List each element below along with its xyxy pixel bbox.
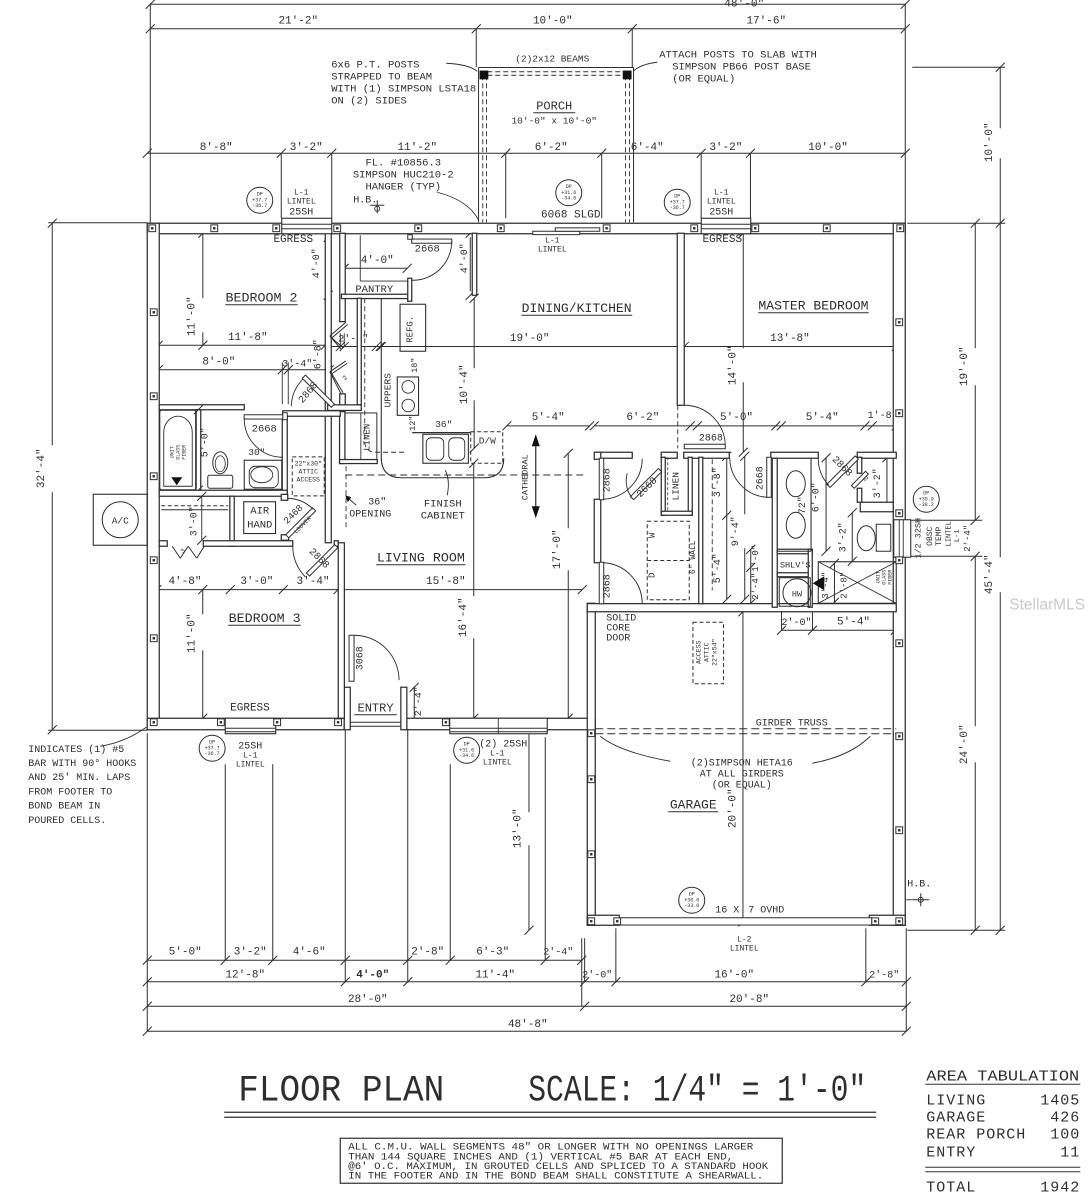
svg-text:6'-4": 6'-4" — [631, 142, 664, 154]
svg-text:GARAGE: GARAGE — [670, 797, 717, 812]
dim row 5'-4" 6'-2" 5'-0" 5'-4" 1'-8" hall/master — [507, 425, 590, 427]
wall water closet bottom — [860, 502, 893, 512]
dim row 8'-8" 3'-2" 11'-2" 6'-2" 6'-4" 3'-2" 10'-0" — [147, 152, 905, 154]
hot water heater — [779, 578, 810, 607]
svg-text:45'-4": 45'-4" — [984, 554, 996, 594]
air handler — [244, 502, 276, 534]
svg-text:15'-8": 15'-8" — [426, 576, 466, 588]
svg-text:HANGER (TYP): HANGER (TYP) — [365, 181, 441, 193]
svg-text:EGRESS: EGRESS — [702, 234, 742, 246]
svg-text:22"x54": 22"x54" — [711, 639, 718, 666]
svg-text:4'-0": 4'-0" — [459, 243, 471, 273]
svg-text:STRAPPED TO BEAM: STRAPPED TO BEAM — [331, 71, 432, 83]
wall hall top west segment — [595, 452, 632, 458]
wall garage bottom right of door — [869, 915, 905, 925]
wall hall south / garage top — [587, 604, 896, 612]
dim 6'-0" vanity — [825, 458, 827, 552]
svg-text:9'-4": 9'-4" — [730, 516, 742, 546]
dim 2'-0" 5'-4" bath bottom — [781, 610, 783, 630]
wall entry west — [344, 687, 350, 730]
wall air handler bottom — [203, 541, 293, 547]
wall bedroom3 east — [338, 543, 344, 719]
svg-text:6'-0": 6'-0" — [811, 482, 823, 512]
dim 45'-4" right overall — [999, 223, 1001, 557]
svg-text:EGRESS: EGRESS — [273, 234, 313, 246]
door 2868 bedroom 2 — [302, 375, 334, 407]
svg-text:LINTEL: LINTEL — [287, 197, 316, 206]
svg-text:10'-4": 10'-4" — [459, 364, 471, 404]
svg-text:11: 11 — [1060, 1144, 1080, 1161]
svg-text:2'-4": 2'-4" — [751, 573, 761, 600]
window 25SH master bedroom — [701, 218, 751, 234]
svg-text:-38.2: -38.2 — [919, 502, 934, 508]
svg-text:2668: 2668 — [415, 243, 440, 255]
dim 9'-4" laundry overall — [744, 456, 746, 514]
svg-text:D/W: D/W — [479, 435, 496, 446]
svg-text:11'-4": 11'-4" — [475, 969, 515, 981]
svg-text:32'-4": 32'-4" — [36, 448, 48, 488]
dim 11'-8" bedroom 2 — [158, 344, 325, 346]
wall garage bottom left of door — [587, 915, 619, 925]
svg-text:4'-6": 4'-6" — [293, 946, 326, 958]
kitchen counter edge — [381, 298, 504, 478]
svg-text:3'-4": 3'-4" — [282, 358, 312, 370]
dim 10'-4" kitchen vertical — [473, 298, 475, 368]
svg-text:3'-2": 3'-2" — [872, 468, 884, 498]
svg-text:D: D — [647, 573, 657, 578]
kitchen upper cabinets dashed — [364, 298, 366, 442]
louver door jambs — [281, 494, 288, 500]
dim 11'-0" bedroom 2 vertical — [202, 233, 204, 298]
wall bath top / bedroom2 bottom — [159, 405, 244, 410]
window 6068 SLGD sliding door — [530, 224, 601, 233]
svg-text:7 OVHD: 7 OVHD — [748, 905, 784, 916]
svg-text:GIRDER TRUSS: GIRDER TRUSS — [756, 718, 828, 729]
svg-text:21'-2": 21'-2" — [278, 15, 318, 27]
svg-text:24'-0": 24'-0" — [959, 724, 971, 764]
title underline double — [224, 1111, 876, 1113]
svg-text:PORCH: PORCH — [536, 99, 572, 113]
range cooktop — [397, 377, 418, 415]
svg-text:L-1: L-1 — [243, 751, 258, 760]
dim 17'-0" living room vertical 2 — [567, 453, 569, 528]
bedroom3 closet shelf — [161, 505, 228, 507]
porch beam dashed walls — [482, 75, 484, 222]
svg-text:LIVING ROOM: LIVING ROOM — [377, 550, 465, 565]
door 2868 master bedroom — [677, 405, 679, 448]
wall shelves top — [777, 549, 812, 554]
svg-text:2'-4": 2'-4" — [543, 946, 573, 958]
door 2868 bedroom 3 — [306, 545, 337, 576]
svg-text:FL. #10856.3: FL. #10856.3 — [365, 157, 441, 169]
svg-text:10'-0": 10'-0" — [533, 15, 573, 27]
svg-text:4'-0": 4'-0" — [311, 248, 323, 278]
bifold closet bedroom2 lower — [330, 361, 346, 372]
dp circle bottom left — [199, 735, 225, 761]
svg-text:-36.7: -36.7 — [252, 203, 267, 209]
door 2-6 water closet — [851, 471, 868, 488]
wall kitchen stub — [472, 233, 477, 295]
svg-text:19'-0": 19'-0" — [510, 333, 550, 345]
wall linen east — [688, 457, 692, 515]
svg-text:2'-0": 2'-0" — [781, 617, 811, 629]
wall bath east — [282, 416, 287, 496]
wall hall top master door east — [684, 452, 730, 458]
svg-text:AIR: AIR — [250, 505, 270, 517]
svg-text:3'-0": 3'-0" — [240, 576, 273, 588]
svg-text:16'-0": 16'-0" — [714, 969, 754, 981]
wall wic west lower — [857, 488, 862, 502]
dim 8'-0" 3'-4" bedroom 2 lower — [158, 369, 329, 371]
door 2868 hall south — [599, 562, 604, 604]
svg-text:-34.6: -34.6 — [459, 753, 474, 759]
svg-text:L-1: L-1 — [714, 188, 729, 197]
svg-text:11'-0": 11'-0" — [186, 296, 198, 336]
garage overhead door 16x7 — [620, 918, 872, 925]
svg-text:SCALE: 1/4" = 1'-0": SCALE: 1/4" = 1'-0" — [528, 1070, 866, 1112]
wall hall west upper — [594, 452, 601, 459]
wall tub east — [196, 410, 201, 497]
svg-text:LINTEL: LINTEL — [236, 760, 265, 769]
window 25SH bedroom 3 — [225, 718, 276, 734]
kitchen sink double bowl — [412, 432, 470, 434]
svg-text:5'-4": 5'-4" — [837, 616, 870, 628]
svg-text:LINEN: LINEN — [362, 424, 372, 451]
svg-text:2868: 2868 — [602, 574, 613, 598]
svg-text:25SH: 25SH — [709, 207, 733, 218]
svg-text:28'-0": 28'-0" — [348, 994, 388, 1006]
filled cell markers bottom wall — [217, 719, 224, 726]
door 3068 entry front — [349, 635, 354, 681]
svg-text:POURED CELLS.: POURED CELLS. — [28, 816, 106, 827]
svg-text:36": 36" — [368, 496, 386, 508]
wall pantry bottom — [341, 294, 411, 298]
svg-text:(2)SIMPSON HETA16: (2)SIMPSON HETA16 — [691, 757, 793, 769]
extension lines mid — [280, 153, 282, 218]
svg-text:CABINET: CABINET — [421, 510, 465, 522]
svg-text:SHLV'S: SHLV'S — [780, 560, 811, 570]
svg-text:-33.0: -33.0 — [684, 903, 699, 909]
svg-text:SIMPSON HUC210-2: SIMPSON HUC210-2 — [353, 169, 454, 181]
svg-text:100: 100 — [1050, 1126, 1080, 1143]
dim 4'-8" 3'-0" 3'-4" 15'-8" living row — [157, 589, 582, 591]
svg-text:8'-8": 8'-8" — [200, 142, 233, 154]
dim 14'-0" master vertical — [742, 233, 744, 348]
svg-text:LINTEL: LINTEL — [945, 521, 953, 546]
dishwasher D/W — [471, 432, 503, 464]
cathedral ceiling arrow — [535, 444, 537, 508]
dim 3'-4" shower — [833, 563, 835, 602]
svg-text:3'-2": 3'-2" — [837, 522, 849, 552]
svg-text:2'-0": 2'-0" — [338, 333, 368, 345]
svg-text:6'-2": 6'-2" — [626, 412, 659, 424]
svg-text:3'-0": 3'-0" — [188, 506, 200, 536]
svg-text:OBSC: OBSC — [926, 526, 935, 545]
svg-text:14'-0": 14'-0" — [727, 345, 739, 385]
svg-text:BEDROOM 2: BEDROOM 2 — [226, 290, 298, 305]
svg-text:INDICATES (1) #5: INDICATES (1) #5 — [28, 744, 124, 756]
window 25SH bedroom 2 — [282, 218, 332, 234]
door 2468 louver air handler — [286, 508, 316, 538]
svg-text:LINTEL: LINTEL — [483, 758, 512, 767]
svg-text:17'-6": 17'-6" — [746, 15, 786, 27]
svg-text:DINING/KITCHEN: DINING/KITCHEN — [522, 301, 632, 316]
svg-text:SIMPSON PB66 POST BASE: SIMPSON PB66 POST BASE — [672, 61, 811, 73]
svg-text:4'-0": 4'-0" — [361, 255, 394, 267]
svg-text:1405: 1405 — [1040, 1092, 1080, 1109]
svg-text:6x6 P.T. POSTS: 6x6 P.T. POSTS — [331, 59, 419, 71]
svg-text:L-1: L-1 — [545, 236, 560, 245]
filled cell markers top wall — [149, 225, 156, 232]
bifold closet bedroom2 upper — [330, 322, 346, 336]
dim 4'-0" kitchen stub wall — [469, 237, 471, 291]
svg-text:11'-8": 11'-8" — [228, 332, 268, 344]
svg-text:6'-8": 6'-8" — [312, 339, 324, 369]
wall exterior bottom mid — [407, 718, 595, 730]
wall 6in laundry — [699, 457, 703, 604]
svg-text:L-2: L-2 — [737, 935, 752, 944]
svg-text:3'-4": 3'-4" — [297, 576, 330, 588]
svg-text:-34.6: -34.6 — [561, 195, 576, 201]
svg-text:LIVING: LIVING — [926, 1092, 986, 1109]
svg-text:StellarMLS: StellarMLS — [1009, 596, 1085, 613]
svg-text:FLOOR PLAN: FLOOR PLAN — [238, 1070, 444, 1112]
dim 48'-8" overall bottom — [147, 1030, 906, 1032]
svg-text:1/2 32SH: 1/2 32SH — [913, 518, 923, 559]
washer dryer dashed — [647, 521, 689, 600]
svg-text:2'-8": 2'-8" — [411, 946, 444, 958]
svg-text:10'-0": 10'-0" — [984, 122, 996, 162]
svg-text:6'-2": 6'-2" — [535, 142, 568, 154]
svg-text:W: W — [647, 532, 657, 538]
pantry shelf line — [359, 235, 361, 281]
svg-text:FROM FOOTER TO: FROM FOOTER TO — [28, 787, 112, 798]
svg-text:11'-0": 11'-0" — [186, 613, 198, 653]
svg-text:ACCESS: ACCESS — [695, 640, 702, 664]
svg-text:GARAGE: GARAGE — [926, 1109, 986, 1126]
svg-text:30": 30" — [248, 447, 265, 458]
wall hall west mid — [594, 499, 601, 563]
porch post 6x6 right — [623, 71, 632, 80]
svg-text:PANTRY: PANTRY — [355, 284, 394, 296]
svg-text:25SH: 25SH — [289, 207, 313, 218]
tub unit glass fiber — [160, 410, 197, 490]
svg-text:ENTRY: ENTRY — [926, 1144, 976, 1161]
dim 11'-0" bedroom 3 vertical — [202, 590, 204, 615]
svg-text:426: 426 — [1050, 1109, 1080, 1126]
attic access hall — [292, 457, 324, 496]
wall bath bottom — [159, 490, 287, 496]
svg-text:TEMP: TEMP — [935, 526, 944, 545]
wall bedroom3 closet divider — [230, 496, 234, 546]
svg-text:REFG.: REFG. — [405, 316, 415, 343]
svg-text:2'-0": 2'-0" — [582, 969, 612, 981]
toilet bath 1 — [208, 475, 233, 488]
dim 2'-4" entry — [413, 687, 415, 723]
wall hall top bath segment — [771, 452, 819, 458]
svg-text:16'-4": 16'-4" — [458, 597, 470, 637]
dim 4'-0" pantry — [344, 267, 407, 269]
dp circle garage — [679, 887, 705, 913]
svg-text:16 X: 16 X — [715, 905, 739, 916]
svg-text:L-1: L-1 — [294, 188, 309, 197]
svg-text:LINTEL: LINTEL — [538, 245, 567, 254]
svg-text:6068 SLGD: 6068 SLGD — [541, 209, 601, 221]
dim 24'-0" right garage — [974, 556, 976, 726]
filled cell markers garage left wall — [588, 730, 595, 737]
svg-text:AT ALL GIRDERS: AT ALL GIRDERS — [700, 769, 784, 780]
wall garage left — [587, 603, 595, 925]
dim 4'-0" bedroom 2 wall — [327, 237, 329, 291]
svg-text:5'-0": 5'-0" — [720, 412, 753, 424]
svg-text:6" WALL: 6" WALL — [689, 540, 698, 574]
dim 48'-0" overall top — [150, 3, 905, 5]
svg-text:6'-3": 6'-3" — [476, 946, 509, 958]
door 2668 master bath — [767, 457, 772, 497]
dim row bottom 12'-8" 4'-0" 11'-4" 2'-0" 16'-0" 2'-8" — [147, 981, 906, 983]
svg-text:A/C: A/C — [112, 515, 129, 526]
wall hall north piece — [283, 411, 341, 417]
dim 16'-4" living room vertical — [473, 463, 475, 596]
door 2868 hall north — [599, 458, 604, 500]
wall bedroom2 east / hall east — [325, 233, 331, 543]
window (2) 25SH dining — [450, 718, 548, 734]
svg-text:ACCESS: ACCESS — [297, 476, 321, 483]
dim 2'-0" hall closet — [329, 346, 381, 348]
filled cell markers garage bottom — [614, 918, 621, 925]
svg-text:MASTER BEDROOM: MASTER BEDROOM — [758, 298, 868, 313]
dim 10'-0" right porch height — [999, 67, 1001, 128]
svg-text:10'-0" x 10'-0": 10'-0" x 10'-0" — [511, 115, 597, 126]
svg-text:48'-8": 48'-8" — [508, 1019, 548, 1031]
wall closet bottom — [328, 405, 362, 411]
wall linen2 bottom — [340, 460, 378, 464]
svg-text:BEDROOM 3: BEDROOM 3 — [229, 611, 301, 626]
svg-text:5'-4": 5'-4" — [532, 412, 565, 424]
wall wic west upper — [857, 457, 862, 473]
a/c unit pad — [93, 494, 147, 545]
window 1/2 32SH bath right wall — [894, 520, 911, 558]
dim 3'-2" water closet — [886, 458, 888, 506]
dim 3'-0 closet line — [201, 496, 203, 540]
extension lines bottom — [146, 733, 148, 1031]
wall shelves divider — [777, 573, 812, 577]
wall closet stub below bifolds — [340, 394, 346, 406]
dp circle top left — [247, 187, 273, 213]
door 2668 pantry — [408, 235, 413, 240]
shower unit glass fiber — [818, 562, 896, 604]
dim 3'-8" 5'-4" laundry — [726, 456, 728, 599]
laundry dashed cabinet line — [711, 459, 713, 590]
svg-text:ATTIC: ATTIC — [703, 642, 710, 662]
toilet master — [876, 524, 891, 551]
girder truss dashed — [595, 728, 896, 730]
door 2868 wic diagonal — [827, 456, 858, 487]
dim row bottom 28'-0" 20'-8" — [147, 1005, 906, 1007]
svg-text:22"x30": 22"x30" — [295, 460, 322, 467]
svg-text:IN THE FOOTER AND IN THE BOND: IN THE FOOTER AND IN THE BOND BEAM SHALL… — [348, 1171, 763, 1182]
wall entry east — [401, 687, 407, 730]
svg-text:3'-2": 3'-2" — [290, 142, 323, 154]
svg-text:3'-2": 3'-2" — [234, 946, 267, 958]
entry threshold — [350, 721, 401, 723]
dim 21'-2" top — [150, 28, 476, 30]
svg-text:12'-8": 12'-8" — [225, 969, 265, 981]
svg-text:ATTIC: ATTIC — [298, 468, 318, 475]
svg-text:4'-0": 4'-0" — [356, 969, 389, 981]
svg-text:ENTRY: ENTRY — [358, 701, 394, 715]
wall pantry west — [340, 233, 346, 321]
vanity bath 1 — [244, 460, 282, 489]
svg-text:5'-4": 5'-4" — [806, 412, 839, 424]
svg-text:11'-2": 11'-2" — [397, 142, 437, 154]
svg-text:2868: 2868 — [602, 468, 613, 492]
svg-text:13'-0": 13'-0" — [512, 808, 524, 848]
svg-text:48'-0": 48'-0" — [724, 0, 764, 10]
dim 19'-0" right master — [974, 223, 976, 348]
wall hall top linen segment — [661, 452, 677, 458]
extension lines top — [149, 4, 151, 223]
wall pantry east — [408, 278, 412, 301]
dim 17'-6" top — [632, 28, 905, 30]
wall shelves east — [808, 549, 812, 607]
svg-text:FIBER: FIBER — [181, 445, 187, 460]
svg-text:AND 25' MIN. LAPS: AND 25' MIN. LAPS — [28, 772, 130, 784]
filled cell markers left wall — [150, 309, 157, 316]
svg-text:REAR PORCH: REAR PORCH — [926, 1126, 1026, 1143]
wall bedroom3 closet bottom — [159, 541, 167, 547]
svg-text:HW: HW — [792, 589, 803, 599]
svg-text:2'-8": 2'-8" — [869, 969, 899, 981]
svg-text:CATHEDRAL: CATHEDRAL — [520, 454, 530, 500]
dim 3'-2" toilet — [851, 513, 853, 562]
linen2 closet outline — [345, 413, 377, 460]
svg-text:18": 18" — [410, 358, 420, 373]
svg-text:FIBER: FIBER — [887, 570, 893, 585]
svg-text:2868: 2868 — [699, 433, 723, 444]
svg-text:12": 12" — [408, 416, 418, 431]
svg-text:20'-0": 20'-0" — [727, 788, 739, 828]
svg-text:LINEN: LINEN — [670, 472, 681, 501]
svg-text:OPENING: OPENING — [349, 509, 391, 520]
vanity master — [810, 458, 812, 552]
svg-text:-36.7: -36.7 — [205, 751, 220, 757]
svg-text:8'-0": 8'-0" — [202, 356, 235, 368]
svg-text:2668: 2668 — [755, 466, 766, 490]
svg-text:TOTAL: TOTAL — [926, 1179, 976, 1196]
wall exterior left — [147, 223, 159, 730]
wall bath west — [772, 458, 777, 607]
dim 13'-8" master bedroom — [684, 345, 896, 347]
dim 32'-4" left side — [51, 223, 53, 445]
bifold bedroom3 closet — [172, 546, 180, 558]
svg-text:EGRESS: EGRESS — [230, 702, 270, 714]
dp circle right bath — [913, 486, 939, 512]
wall hall top right segment — [857, 452, 896, 458]
dim row bottom 5'-0" 3'-2" 4'-6" 2'-8" 6'-3" 2'-4" — [147, 959, 582, 961]
svg-text:AREA TABULATION: AREA TABULATION — [926, 1068, 1079, 1085]
svg-text:H.B.: H.B. — [353, 195, 377, 206]
svg-text:BOND BEAM IN: BOND BEAM IN — [28, 802, 100, 813]
svg-text:5'-0": 5'-0" — [169, 946, 202, 958]
dp circle top center — [556, 180, 582, 206]
note box CMU shearwall — [340, 1138, 782, 1183]
dim 19'-0" dining/kitchen — [380, 345, 684, 347]
bedroom3 door jamb — [334, 541, 338, 547]
dim 1'-0" 2'-4" hall — [750, 549, 752, 603]
filled cell markers right wall — [896, 319, 903, 326]
svg-text:WITH (1) SIMPSON LSTA18: WITH (1) SIMPSON LSTA18 — [331, 83, 476, 95]
